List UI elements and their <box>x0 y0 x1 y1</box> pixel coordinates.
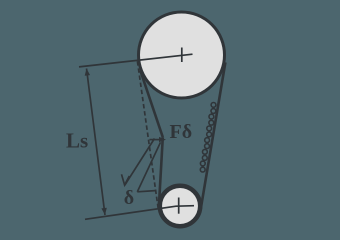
big pulley centerline extension <box>79 54 193 67</box>
pulley big <box>139 12 225 98</box>
dimension arrow bottom <box>101 208 106 215</box>
small pulley center tick <box>178 198 180 214</box>
deflection angle arrow A head <box>122 174 130 185</box>
dimension arrow top <box>85 69 90 76</box>
belt left span original position (dashed) <box>137 61 158 208</box>
deflection angle arrow B shaft <box>137 142 160 192</box>
pulley small <box>160 186 200 226</box>
deflection angle arrow A shaft <box>125 139 155 186</box>
svg-text:δ: δ <box>124 187 134 209</box>
belt left span deflected lower segment <box>159 137 163 204</box>
belt left span deflected upper segment <box>140 71 163 138</box>
belt right span <box>201 62 226 209</box>
force arrow F delta head <box>159 137 166 142</box>
svg-text:Fδ: Fδ <box>170 121 193 143</box>
svg-text:Ls: Ls <box>66 129 88 153</box>
deflection angle arrow B head barb <box>137 191 155 192</box>
small pulley centerline extension <box>85 206 194 220</box>
spring on right belt span <box>211 103 216 108</box>
big pulley center tick <box>181 48 183 63</box>
force arrow F delta shaft <box>150 139 161 141</box>
dimension line Ls <box>87 69 106 216</box>
